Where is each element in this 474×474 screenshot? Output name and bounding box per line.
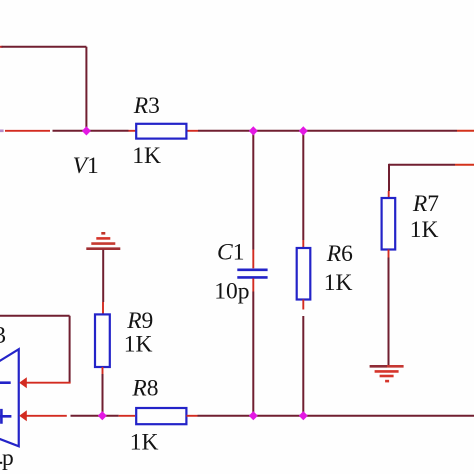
capacitor C1 top plate: [237, 268, 267, 271]
resistor R6: [297, 248, 311, 300]
wire bottom rail maroon segment: [71, 415, 119, 417]
wire C1 column upper maroon: [252, 131, 254, 250]
ground right: [370, 366, 404, 381]
wire top rail red into R3: [129, 130, 138, 132]
op-amp minus sign: [0, 381, 11, 384]
wire C1 pin red bottom: [252, 279, 254, 292]
svg-text:1K: 1K: [410, 217, 439, 243]
wire C1 column lower maroon: [252, 292, 254, 415]
wire R6 column upper maroon: [302, 131, 304, 240]
arrow into non-inverting input: [19, 410, 27, 421]
wire bottom rail red from op-amp: [26, 415, 67, 417]
wire bottom rail maroon to right edge: [198, 415, 474, 417]
svg-text:R6: R6: [326, 241, 353, 267]
svg-text:1K: 1K: [130, 430, 159, 456]
wire top rail maroon middle: [198, 130, 457, 132]
wire right stub red edge: [455, 164, 474, 166]
svg-text:3: 3: [0, 323, 6, 349]
wire top rail red right edge: [457, 130, 474, 132]
node left-edge port stub: [0, 130, 4, 133]
wire top rail maroon to V1: [53, 130, 129, 132]
wire R7 column upper maroon: [388, 164, 390, 191]
svg-text:V1: V1: [73, 153, 99, 179]
wire R6 column lower maroon: [302, 316, 304, 414]
svg-text:R8: R8: [131, 375, 158, 401]
resistor R9: [95, 314, 110, 367]
wire top-left horizontal: [2, 46, 87, 48]
label partial dash left edge: [0, 462, 2, 464]
resistor R7: [382, 198, 396, 250]
node bottom rail left junction: [98, 411, 107, 420]
wire top rail red segment left: [5, 130, 50, 132]
svg-text:1K: 1K: [324, 270, 353, 296]
wire bottom rail red out of R8: [187, 415, 198, 417]
node top rail junction A: [249, 126, 258, 135]
wire R7 column lower maroon: [388, 258, 390, 367]
op-amp U3 triangle: [0, 349, 19, 446]
wire feedback top horizontal maroon: [0, 315, 70, 317]
svg-text:1K: 1K: [132, 143, 161, 169]
wire R9 pin red top: [102, 302, 104, 315]
node V1 junction: [82, 126, 91, 135]
wire right stub horizontal maroon: [389, 164, 455, 166]
wire R6 pin red bottom: [302, 300, 304, 310]
svg-text:p: p: [2, 445, 14, 471]
svg-text:1K: 1K: [124, 331, 153, 357]
wire C1 pin red top: [252, 250, 254, 269]
wire top rail red out of R3: [186, 130, 198, 132]
capacitor C1 bottom plate: [237, 276, 267, 279]
svg-text:R9: R9: [126, 308, 153, 334]
svg-text:10p: 10p: [214, 278, 249, 304]
svg-text:R7: R7: [412, 191, 439, 217]
op-amp plus sign: [0, 409, 11, 424]
wire left ground stem maroon: [102, 250, 104, 302]
svg-text:R3: R3: [133, 93, 160, 119]
resistor R3: [136, 124, 186, 139]
ground left inverted: [86, 233, 120, 248]
node bottom rail junction D: [299, 411, 308, 420]
wire feedback vertical maroon: [69, 316, 71, 383]
node top rail junction B: [299, 126, 308, 135]
wire R9 pin red bottom: [102, 367, 104, 374]
resistor R8: [136, 408, 186, 424]
wire R7 pin red bottom: [388, 250, 390, 258]
wire R6 pin red top: [302, 240, 304, 249]
node bottom rail junction C: [249, 411, 258, 420]
wire top-left horizontal red tip: [0, 46, 3, 48]
wire top-left vertical to node V1: [85, 47, 87, 131]
wire feedback red into inverting input: [25, 382, 71, 384]
arrow into inverting input: [19, 377, 27, 388]
wire bottom rail red into R8: [119, 415, 135, 417]
svg-text:C1: C1: [217, 239, 244, 265]
wire R7 pin red top: [388, 191, 390, 199]
wire R9 column lower maroon: [102, 374, 104, 414]
